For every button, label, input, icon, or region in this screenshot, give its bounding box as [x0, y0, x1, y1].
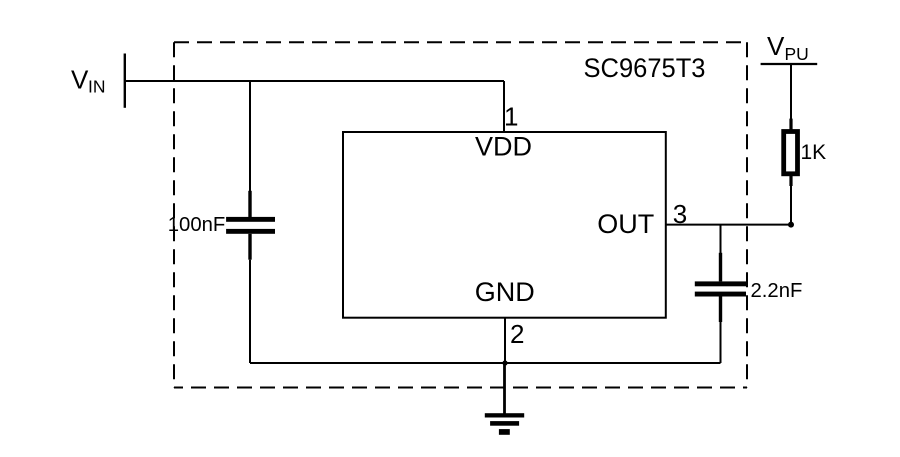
- IC U1 body: [343, 132, 666, 318]
- node A junction dot: [788, 222, 794, 228]
- node VPU label: [767, 31, 809, 64]
- wire resistor to node A: [790, 186, 792, 225]
- node B junction dot: [502, 360, 507, 365]
- svg-text:1: 1: [504, 102, 518, 132]
- svg-text:2.2nF: 2.2nF: [751, 280, 803, 302]
- capacitor C2 2.2nF: [695, 253, 746, 322]
- wire down to pin 1: [503, 81, 505, 132]
- svg-text:IN: IN: [88, 77, 106, 97]
- ground rail wire: [250, 362, 721, 364]
- svg-text:100nF: 100nF: [168, 214, 226, 236]
- wire node to capacitor C2 top: [720, 225, 722, 253]
- svg-text:V: V: [767, 31, 785, 61]
- svg-text:GND: GND: [475, 277, 535, 307]
- wire capacitor C2 bottom to ground rail: [720, 322, 722, 363]
- svg-text:1K: 1K: [801, 141, 827, 164]
- VPU terminal bar: [761, 63, 818, 65]
- wire capacitor C1 bottom to ground rail: [249, 260, 251, 363]
- ground: [485, 413, 524, 435]
- capacitor C1 100nF: [226, 191, 275, 260]
- wire VPU to resistor: [790, 64, 792, 119]
- wire VIN to pin1 corner: [125, 80, 504, 82]
- svg-text:SC9675T3: SC9675T3: [584, 53, 706, 83]
- node VIN label: [71, 65, 106, 97]
- wire ground rail to ground symbol: [503, 363, 506, 414]
- svg-text:V: V: [71, 65, 89, 95]
- dashed enclosure box: [174, 42, 747, 387]
- svg-text:2: 2: [510, 319, 524, 349]
- wire VIN rail down to capacitor C1: [249, 81, 251, 192]
- wire pin 2 to ground rail: [504, 318, 506, 363]
- svg-text:PU: PU: [785, 44, 809, 64]
- VIN terminal bar: [124, 54, 126, 108]
- svg-text:OUT: OUT: [597, 209, 654, 239]
- resistor R1 1K: [784, 119, 798, 186]
- wire pin 3 to pull-up node: [666, 224, 791, 226]
- svg-text:VDD: VDD: [475, 132, 532, 162]
